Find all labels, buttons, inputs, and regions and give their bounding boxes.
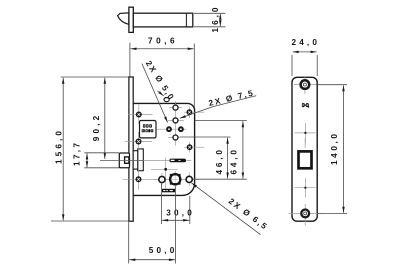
plate lower node dot bbox=[295, 178, 316, 198]
leader 2X Ø7,5 bbox=[180, 96, 256, 119]
dimension 17,7 (latch height) bbox=[84, 153, 119, 168]
leader 2X Ø5,0 bbox=[142, 64, 168, 123]
leader 2X Ø6,5 bbox=[192, 183, 261, 235]
cluster hole left (filled, 5.0) bbox=[157, 126, 187, 132]
cluster hole top (ring) bbox=[170, 105, 182, 110]
slot bbox=[169, 159, 186, 163]
lock case outline bbox=[133, 103, 194, 195]
bottom-left hole (ring 6.5) bbox=[159, 173, 165, 186]
dimension 46,0 bbox=[180, 137, 231, 179]
small oval above case bbox=[164, 98, 169, 102]
follower hole cluster centreline bbox=[175, 101, 177, 145]
lock case (side view bar) bbox=[133, 13, 193, 27]
label plate box DAQ bbox=[140, 121, 157, 138]
plate square hole bbox=[304, 138, 306, 148]
latch body inside case (stepped) bbox=[138, 149, 144, 171]
latch bolt (front view, protruding) bbox=[119, 153, 129, 168]
striking plate (front view, right) bbox=[292, 77, 317, 221]
cluster hole bottom (ring) bbox=[168, 135, 180, 140]
plate bottom screw hole bbox=[289, 204, 322, 226]
plate top screw hole bbox=[294, 76, 317, 94]
corner hole top-right (filled) bbox=[184, 107, 205, 119]
faceplate (front view, edge strip) bbox=[129, 77, 133, 221]
mid-right hole (filled) bbox=[184, 142, 205, 153]
dimension 156,0 (faceplate length) bbox=[62, 78, 64, 221]
dimension 50,0 bbox=[129, 187, 176, 264]
dimension 16,0 (case thickness) bbox=[194, 13, 226, 26]
dimension 140,0 (plate height) bbox=[318, 85, 348, 214]
spindle follower (square hole) bbox=[170, 171, 180, 189]
latch face detail bbox=[125, 157, 129, 163]
dimension 24,0 (plate width) bbox=[292, 52, 317, 76]
plate logo bbox=[302, 103, 309, 108]
cluster hole right (filled, 5.0) bbox=[178, 126, 184, 132]
dimension 90,2 (top to latch centre) bbox=[104, 78, 106, 159]
bottom row centreline bbox=[154, 178, 200, 180]
latch centreline bbox=[100, 159, 144, 161]
case end divider line (side view) bbox=[185, 13, 187, 26]
node dot on latch line bbox=[151, 168, 178, 170]
screw post bottom-left bbox=[123, 170, 154, 190]
screw post mid-left bbox=[125, 132, 152, 152]
dimension 64,0 bbox=[193, 121, 247, 180]
cluster hole 2 (ring, 7.5) bbox=[168, 118, 184, 123]
dimension 30,0 bbox=[162, 184, 190, 225]
screw post top-left bbox=[128, 105, 153, 125]
left top extension line bbox=[61, 76, 130, 78]
plate upper node dot bbox=[295, 123, 316, 143]
bottom-right hole (ring 6.5) bbox=[186, 173, 192, 187]
faceplate (side view, edge-on) bbox=[129, 7, 133, 32]
left bottom extension line bbox=[51, 220, 129, 222]
latch bolt tip (side view) bbox=[118, 13, 129, 25]
dimension 70,6 (case depth) bbox=[130, 43, 194, 111]
bottom label strip bbox=[162, 189, 175, 193]
